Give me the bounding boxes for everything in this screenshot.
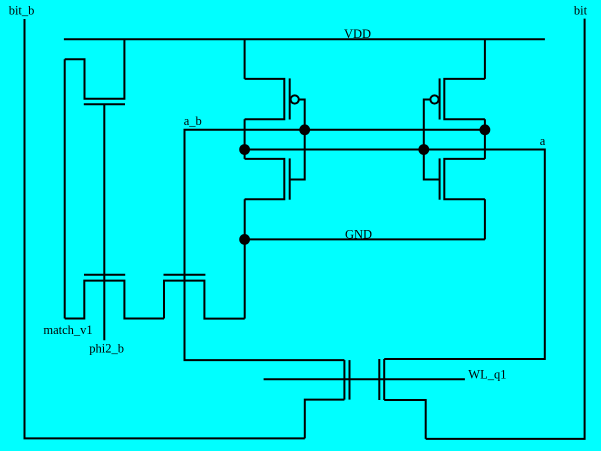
pmos U1 source-drain path (left pull-up) — [245, 79, 285, 119]
junction dot a / right gates — [418, 144, 429, 155]
nmos U2 gate bar — [289, 158, 291, 199]
wire right inverter gate (bubble to a and nmos gate) — [424, 100, 440, 180]
nmos U4 gate bar — [439, 158, 441, 199]
wire match_v1 vertical — [64, 59, 66, 318]
pmos U3 source-drain path (right pull-up) — [444, 79, 485, 119]
pmos U1 gate bubble — [291, 95, 299, 103]
junction dot a_b / right inverter output — [480, 124, 491, 135]
nmos U2 source-drain path (left pull-down) — [245, 159, 285, 199]
pmos U1 gate bar — [289, 78, 291, 119]
svg-text:VDD: VDD — [344, 27, 371, 41]
junction dot GND / left pull-down — [239, 234, 250, 245]
wire right NMOS to GND — [484, 199, 486, 239]
access transistor M8 channel bar (left) — [343, 360, 345, 400]
wire access M8 drain to bit_b bottom — [305, 400, 345, 439]
pmos U3 gate bubble — [430, 95, 438, 103]
svg-text:match_v1: match_v1 — [43, 323, 92, 337]
access transistor M8 gate bar — [349, 360, 351, 400]
wire VDD to right PMOS source — [484, 39, 486, 79]
pmos U3 gate bar — [439, 78, 441, 119]
transistor M7 gate bar — [164, 274, 206, 276]
wire net a — [245, 150, 545, 360]
junction dot a / left inverter output — [239, 144, 250, 155]
transistor M5 gate bar — [84, 103, 125, 105]
svg-text:a_b: a_b — [184, 114, 202, 128]
access transistor M9 channel bar (right) — [383, 359, 385, 400]
wire VDD to left PMOS source — [244, 39, 246, 79]
wire phi2_b gate stem — [103, 104, 105, 340]
svg-text:phi2_b: phi2_b — [89, 342, 124, 356]
wire match transistors to GND column — [244, 199, 246, 318]
svg-text:WL_q1: WL_q1 — [468, 368, 506, 382]
wire net a_b — [185, 130, 485, 360]
wire WL_q1 word line — [264, 378, 465, 380]
transistor M6 source-drain path (phi2_b match transistor) — [65, 281, 164, 319]
wire left inverter gate (bubble to a_b and nmos gate) — [290, 100, 305, 180]
junction dot a_b / left gates — [299, 124, 310, 135]
wire bit_b (left bit line, down and along bottom) — [25, 19, 305, 438]
wire access M9 drain to bit bottom — [384, 400, 426, 439]
transistor M6 gate bar — [84, 274, 125, 276]
nmos U4 source-drain path (right pull-down) — [444, 159, 485, 199]
transistor M7 source-drain path (a_b match transistor) — [164, 281, 245, 319]
svg-text:bit: bit — [574, 3, 588, 17]
wire bit (right bit line, down and along bottom) — [426, 19, 585, 439]
transistor M5 source-drain path (top-left, VDD to match_v1) — [65, 39, 125, 99]
svg-text:bit_b: bit_b — [9, 3, 35, 17]
wire right inverter output column — [484, 119, 486, 159]
access transistor M9 gate bar — [378, 359, 380, 400]
wire VDD rail — [64, 38, 545, 40]
wire left inverter output column — [244, 119, 246, 159]
svg-text:a: a — [540, 134, 546, 148]
wire GND rail — [245, 238, 485, 240]
svg-text:GND: GND — [345, 227, 372, 241]
